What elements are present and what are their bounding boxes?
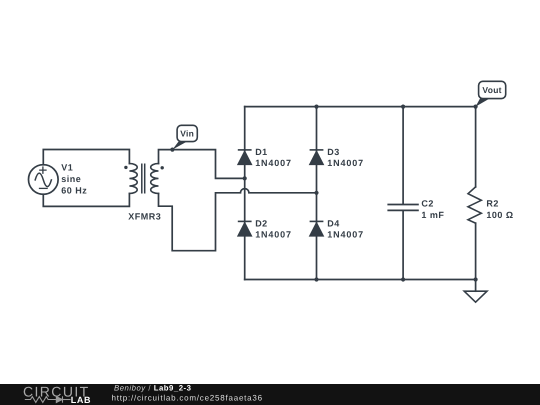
wire V1 top to transformer primary [43, 150, 129, 165]
label R2 value [486, 198, 513, 220]
wire secondary top to bridge node between D1 D2 [159, 150, 245, 179]
transformer primary phase dot [124, 166, 127, 169]
junction dot Vin tap [170, 148, 174, 152]
svg-text:D3: D3 [327, 147, 340, 157]
label D3 value [327, 147, 364, 168]
label D2 value [255, 218, 292, 239]
svg-text:Beniboy / Lab9_2-3: Beniboy / Lab9_2-3 [114, 384, 192, 393]
junction dot top rail Vout [474, 105, 478, 109]
label C2 value [421, 198, 444, 220]
diode D4 [310, 221, 324, 236]
svg-text:V1: V1 [61, 162, 73, 172]
svg-text:1N4007: 1N4007 [327, 158, 364, 168]
node flag Vout [476, 81, 506, 106]
svg-text:R2: R2 [486, 198, 499, 208]
svg-text:D4: D4 [327, 218, 340, 228]
svg-text:LAB: LAB [71, 395, 91, 405]
svg-text:1N4007: 1N4007 [327, 230, 364, 240]
bottom rail wire [245, 279, 476, 281]
top rail wire [245, 106, 476, 108]
wire secondary bottom to bridge node between D3 D4 with hop [159, 189, 317, 251]
svg-text:1N4007: 1N4007 [255, 158, 292, 168]
junction dot bottom rail C2 [401, 277, 405, 281]
node flag Vin [172, 125, 197, 149]
label D4 value [327, 218, 364, 239]
svg-text:D2: D2 [255, 218, 268, 228]
diode D3 [310, 150, 324, 165]
junction dot top rail C2 [401, 105, 405, 109]
svg-text:XFMR3: XFMR3 [128, 212, 161, 222]
diode D1 [238, 150, 252, 165]
transformer secondary phase dot [161, 166, 164, 169]
ground [464, 280, 487, 303]
svg-text:1N4007: 1N4007 [255, 230, 292, 240]
svg-text:Vin: Vin [180, 129, 194, 139]
label D1 value [255, 147, 292, 168]
junction dot top rail D3 [314, 105, 318, 109]
svg-text:C2: C2 [421, 198, 434, 208]
transformer XFMR3 primary coil [129, 164, 137, 194]
right bridge branch wire [316, 107, 318, 280]
capacitor C2 [388, 107, 418, 280]
diode D2 [238, 221, 252, 236]
junction dot right bridge mid [314, 191, 318, 195]
junction dot left bridge mid [243, 176, 247, 180]
wire V1 bottom to transformer primary [43, 194, 129, 207]
junction dot bottom rail D4 [314, 277, 318, 281]
svg-text:100 Ω: 100 Ω [486, 210, 513, 220]
svg-text:1 mF: 1 mF [421, 210, 444, 220]
svg-text:Vout: Vout [482, 85, 501, 95]
junction dot bottom rail ground [474, 277, 478, 281]
voltage source V1 [29, 165, 59, 195]
svg-text:D1: D1 [255, 147, 268, 157]
circuitlab logo resistor-diode drawing [25, 396, 71, 402]
left bridge branch wire [244, 107, 246, 280]
transformer XFMR3 secondary coil [151, 164, 159, 194]
footer bar [0, 384, 540, 405]
svg-text:60 Hz: 60 Hz [61, 185, 87, 195]
transformer XFMR3 core [142, 164, 145, 192]
svg-text:http://circuitlab.com/ce258faa: http://circuitlab.com/ce258faaeta36 [112, 393, 263, 402]
label V1 value [61, 162, 87, 195]
svg-text:sine: sine [61, 174, 81, 184]
resistor R2 [468, 107, 481, 280]
